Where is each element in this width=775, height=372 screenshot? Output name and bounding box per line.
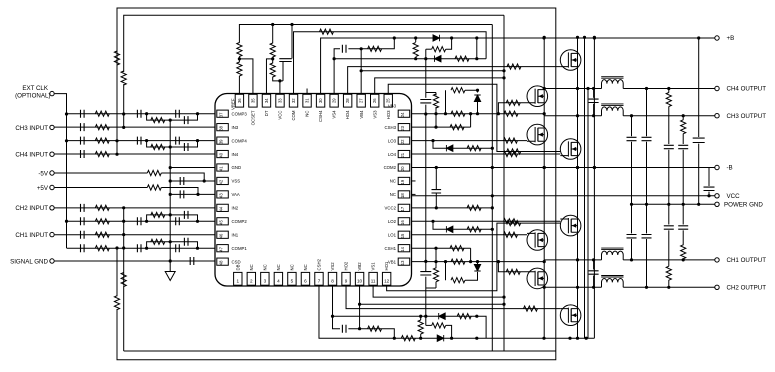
svg-text:CSD: CSD [232, 259, 241, 264]
resistor Q1 gate [507, 64, 521, 69]
U1 pin 26 box [371, 94, 379, 107]
capacitor COMP row 2 [176, 244, 180, 252]
wire resv436 top link [426, 92, 436, 94]
svg-text:CH4 INPUT: CH4 INPUT [15, 152, 48, 159]
junction outer loop COMP1 [115, 246, 118, 249]
svg-text:1: 1 [237, 279, 240, 284]
junction EXT CLK bus COMP4 [65, 139, 68, 142]
junction col668 ch2 [667, 286, 670, 289]
svg-text:19: 19 [400, 179, 405, 184]
wire y58.7 row [334, 58, 486, 60]
svg-text:45: 45 [219, 220, 224, 225]
svg-text:23: 23 [400, 125, 405, 130]
resistor R VREF lower [237, 62, 242, 76]
svg-text:34: 34 [264, 98, 269, 103]
capacitor filter CH3 [627, 137, 637, 140]
junction bus424 VB1 [424, 260, 427, 263]
wire col668 b [668, 150, 670, 205]
capacitor VCC [704, 187, 715, 190]
wire VCC rail [412, 195, 715, 197]
U1 pin 31 box [303, 94, 311, 107]
junction col683 ch1 [682, 258, 685, 261]
junction branch bus 226 [491, 228, 494, 231]
U1 pin 30 box [316, 94, 324, 107]
wire COMP T branch [147, 242, 198, 248]
resistor zobel CH3 [681, 120, 686, 134]
inductor L CH1 [602, 251, 624, 260]
wire x476 vertical [476, 38, 478, 59]
svg-text:33: 33 [277, 98, 282, 103]
wire outer loop upper [116, 45, 118, 52]
resistor FET4 gate [504, 151, 518, 156]
resistor COMP T branch [151, 212, 165, 217]
svg-text:40: 40 [219, 152, 224, 157]
U1 pin 13 box [398, 258, 410, 265]
U1 pin 27 box [357, 94, 365, 107]
diode y316 [439, 313, 446, 319]
junction pin8 y316 [331, 315, 334, 318]
svg-text:HO4: HO4 [345, 110, 350, 119]
wire bus424 lower [425, 277, 427, 326]
wire DT chain bottom [273, 77, 283, 81]
inductor L CH3 core [601, 104, 623, 106]
wire bus 588 [587, 89, 589, 339]
wire outer loop to IN4 [116, 141, 118, 154]
junction 577 -B [576, 166, 579, 169]
terminal CH2 OUTPUT [715, 285, 719, 289]
resistor COMP feedback [95, 246, 109, 251]
svg-text:EXT CLK: EXT CLK [22, 85, 49, 92]
svg-text:42: 42 [219, 179, 224, 184]
wire vcc cap upper [708, 168, 710, 187]
svg-text:NC: NC [249, 264, 254, 270]
U1 pin 18 box [398, 191, 410, 198]
terminal CH1 INPUT [50, 232, 54, 236]
wire pin19 stub [412, 180, 416, 182]
U1 pin 33 box [276, 94, 284, 107]
wire CH3 output line b [623, 115, 715, 117]
junction VB2 pin10 [358, 303, 361, 306]
svg-text:29: 29 [332, 98, 337, 103]
junction LO3 branch [431, 139, 434, 142]
svg-text:GND: GND [232, 165, 242, 170]
junction VB3 gate branch [497, 112, 500, 115]
wire CH3 output line a [544, 115, 601, 117]
U1 pin 15 box [398, 231, 410, 238]
wire diode to VB1 row [477, 262, 479, 265]
resistor VS2 [368, 326, 382, 331]
wire COMP T branch [147, 215, 198, 221]
capacitor COMP [81, 244, 85, 252]
junction y58.7 x476 [475, 57, 478, 60]
transistor Q8 [560, 305, 581, 326]
capacitor COMP row 2 [176, 137, 180, 145]
svg-text:31: 31 [304, 98, 309, 103]
svg-text:VREF: VREF [231, 98, 236, 110]
U1 pin 34 box [262, 94, 270, 107]
svg-text:IN4: IN4 [232, 152, 239, 157]
junction VB3 loop left [444, 112, 447, 115]
capacitor COMP [81, 110, 85, 118]
svg-text:13: 13 [400, 260, 405, 265]
capacitor VSS decoupling [180, 177, 184, 185]
U1 pin 35 box [249, 94, 257, 107]
op-amp U1 IRS2093M body [215, 94, 412, 287]
wire inner loop lower vertical [123, 208, 125, 285]
wire -5V to VSS [161, 173, 204, 181]
svg-text:HO3: HO3 [386, 110, 391, 119]
capacitor zobel CH2 [664, 226, 674, 229]
wire col668 bottom lead [668, 280, 670, 287]
svg-text:NC: NC [303, 264, 308, 270]
resistor R VREF upper [237, 43, 242, 57]
svg-text:HO2: HO2 [344, 261, 349, 270]
svg-text:10: 10 [357, 279, 363, 284]
junction VB1 loop left [444, 260, 447, 263]
wire pin31 stub [306, 89, 308, 94]
junction VCC bus492 [491, 194, 494, 197]
wire COMP T branch [147, 141, 198, 147]
resistor VB1 row [451, 259, 465, 264]
U1 pin 44 box [217, 204, 229, 211]
wire VS2 row [333, 286, 340, 329]
svg-text:15: 15 [400, 233, 405, 238]
svg-text:24: 24 [400, 112, 405, 117]
junction -B rail [576, 166, 579, 169]
junction y338 bus [542, 337, 545, 340]
svg-text:26: 26 [372, 98, 377, 103]
U1 pin 45 box [217, 218, 229, 225]
svg-text:POWER GND: POWER GND [724, 202, 763, 209]
junction inner loop COMP2 [122, 220, 125, 223]
resistor Q4 gate [507, 149, 521, 154]
svg-text:27: 27 [359, 98, 364, 103]
junction -B rail [491, 166, 494, 169]
svg-text:48: 48 [219, 260, 224, 265]
wire HO3 to Q4 gate [388, 84, 560, 151]
svg-text:NC: NC [290, 264, 295, 270]
capacitor COMP [81, 137, 85, 145]
svg-text:CH3 OUTPUT: CH3 OUTPUT [727, 113, 767, 120]
svg-text:COMP2: COMP2 [232, 219, 248, 224]
junction col683 ch3 [682, 114, 685, 117]
svg-text:CSH1: CSH1 [385, 246, 397, 251]
svg-text:CSH4: CSH4 [318, 110, 323, 122]
capacitor COMP T branch [184, 116, 188, 124]
svg-text:16: 16 [400, 220, 405, 225]
wire cap chain bottom [282, 62, 284, 81]
junction bus424 y316 [424, 315, 427, 318]
U1 pin 8 box [328, 272, 336, 285]
svg-text:LO2: LO2 [388, 219, 397, 224]
wire input row [55, 126, 215, 128]
resistor FET3 gate [504, 138, 518, 143]
transistor Q3 [527, 124, 548, 145]
capacitor zobel CH1 [678, 226, 688, 229]
wire col683 b [682, 150, 684, 205]
wire DT top [272, 25, 274, 44]
svg-text:46: 46 [219, 233, 224, 238]
capacitor CSD [190, 257, 194, 265]
U1 pin 37 box [217, 110, 229, 117]
svg-text:CH4 OUTPUT: CH4 OUTPUT [727, 86, 767, 93]
junction y338 bus [576, 337, 579, 340]
wire VCC cap chain top [291, 25, 293, 59]
resistor COMP feedback [95, 138, 109, 143]
svg-text:LO3: LO3 [388, 138, 397, 143]
wire col698 lower [698, 144, 700, 205]
junction COMP T [145, 139, 148, 142]
resistor input series [95, 125, 109, 130]
svg-text:LO4: LO4 [388, 152, 397, 157]
wire R2 right lead [446, 38, 452, 49]
junction VB1 column [543, 260, 546, 263]
resistor COMP T branch [151, 239, 165, 244]
wire resv436b bottom [435, 282, 437, 288]
junction VB4 pin27 [360, 69, 363, 72]
terminal CH4 OUTPUT [715, 86, 719, 90]
capacitor bulk +B [693, 138, 705, 142]
junction 588 ch4 [586, 87, 589, 90]
terminal POWER GND [715, 202, 719, 206]
svg-text:8: 8 [331, 279, 334, 284]
wire resv436b link [426, 287, 436, 289]
wire CSH3 row [412, 126, 471, 128]
svg-text:25: 25 [386, 98, 391, 103]
resistor +5V [147, 185, 161, 190]
diode D OCSET top [433, 35, 440, 41]
resistor y31.7 [320, 29, 334, 34]
svg-text:11: 11 [371, 279, 376, 284]
diode y58.7 [435, 56, 442, 62]
wire vref mid [238, 56, 240, 62]
svg-text:VS3: VS3 [372, 110, 377, 119]
svg-text:CSH3: CSH3 [385, 125, 397, 130]
wire VAA row [170, 193, 215, 195]
svg-text:IN3: IN3 [232, 125, 239, 130]
svg-text:CSH2: CSH2 [317, 258, 322, 270]
terminal CH2 INPUT [50, 206, 54, 210]
svg-text:5: 5 [291, 279, 294, 284]
wire col631 mid [631, 142, 633, 205]
wire LO2 gate row [412, 220, 561, 222]
junction VS1 504 [502, 296, 505, 299]
junction col668 ch4 [667, 87, 670, 90]
junction COMP T right [196, 139, 199, 142]
svg-text:9: 9 [345, 279, 348, 284]
wire HO4 gate row [348, 67, 561, 94]
junction pin29 y58.7 [333, 57, 336, 60]
wire col683 c [682, 204, 684, 224]
wire pin10 vertical [359, 286, 361, 329]
junction 594 -B [593, 166, 596, 169]
U1 pin 48 box [217, 258, 229, 265]
resistor COMP feedback [95, 111, 109, 116]
svg-text:35: 35 [250, 98, 255, 103]
junction y58.7 left [414, 57, 417, 60]
capacitor filter CH2 [642, 235, 652, 238]
resistor y58.7 [455, 56, 469, 61]
svg-text:32: 32 [291, 98, 296, 103]
svg-text:NC: NC [276, 264, 281, 270]
wire Rv bottom lead [415, 57, 417, 59]
wire COMP row [67, 247, 216, 249]
U1 pin 12 box [382, 272, 390, 285]
wire col683 bottom lead [682, 259, 684, 260]
U1 pin 11 box [369, 272, 377, 285]
junction cap ch12 top [592, 258, 595, 261]
junction resv436 CSH3 [434, 126, 437, 129]
junction col646 ch2 [645, 286, 648, 289]
U1 pin 6 box [301, 272, 309, 285]
junction VCC2 cap [435, 206, 438, 209]
junction rail VSS [169, 179, 172, 182]
wire cap438 lower [435, 193, 437, 208]
svg-text:7: 7 [318, 279, 321, 284]
wire LO3 gate row [412, 140, 528, 142]
inductor L CH4 [602, 80, 624, 89]
svg-text:3: 3 [264, 279, 267, 284]
svg-text:(OPTIONAL): (OPTIONAL) [15, 92, 50, 99]
capacitor COMP row 2 [176, 110, 180, 118]
resistor x436 [433, 94, 438, 108]
wire resv436 top [435, 93, 437, 96]
wire VB3 row [412, 113, 545, 115]
svg-text:VB2: VB2 [357, 262, 362, 271]
resistor outer loop top [114, 51, 119, 65]
resistor zobel CH4 [666, 93, 671, 107]
terminal CH3 INPUT [50, 125, 54, 129]
wire outer loop bottom stub [116, 309, 118, 360]
svg-text:NC: NC [390, 179, 396, 184]
wire +5V row [55, 187, 148, 189]
wire input row [55, 153, 215, 155]
wire CH4 output line a [544, 88, 601, 90]
junction DT y24.5 [271, 23, 274, 26]
wire cap ch43 upper [593, 89, 595, 98]
svg-text:COM2: COM2 [384, 165, 397, 170]
junction +B rail [697, 36, 700, 39]
junction 544 +B [543, 36, 546, 39]
U1 pin 25 box [384, 94, 392, 107]
wire COM row y31.7 [294, 32, 487, 94]
svg-text:CH3 INPUT: CH3 INPUT [15, 125, 48, 132]
capacitor COMP T 1 [137, 110, 141, 118]
wire COMP row [67, 140, 216, 142]
wire y24.5 rail [239, 25, 492, 43]
resistor CSH3 [450, 125, 464, 130]
svg-text:+B: +B [727, 35, 735, 42]
resistor input series [95, 232, 109, 237]
resistor bottom divider [418, 320, 423, 334]
capacitor input coupling [81, 123, 85, 131]
wire ground stub [169, 261, 171, 272]
transistor Q2 [527, 86, 548, 107]
junction y338 bus [585, 337, 588, 340]
wire -5V row [55, 172, 148, 174]
junction bus424 y58.7 [424, 57, 427, 60]
junction y316 x476 [475, 315, 478, 318]
wire CH4 output line b [623, 88, 715, 90]
junction +B rail [414, 36, 417, 39]
wire Rv bottom lead2 [420, 334, 422, 338]
wire HO1 to Q5 gate [387, 223, 561, 291]
svg-text:2: 2 [250, 279, 253, 284]
wire VS2 riser [348, 329, 394, 339]
wire FET column 577 [577, 37, 579, 338]
U1 pin 3 box [261, 272, 269, 285]
wire bottom bus y338 [319, 286, 594, 338]
junction COMP T [145, 112, 148, 115]
wire cap438 upper [435, 168, 437, 190]
capacitor COMP T branch [184, 143, 188, 151]
U1 pin 21 box [398, 150, 410, 157]
wire col668 a [668, 106, 670, 144]
wire COMP T branch [147, 114, 198, 120]
svg-text:VS4: VS4 [332, 110, 337, 119]
capacitor bus424 bottom [420, 272, 431, 275]
junction -B rail [593, 166, 596, 169]
junction 584 +B [583, 36, 586, 39]
junction pwr gnd rail [645, 203, 648, 206]
wire CH2 output line a [544, 286, 601, 288]
resistor VB3 loop top [451, 88, 465, 93]
junction 544 ch2 [543, 286, 546, 289]
junction inner loop IN3 [122, 126, 125, 129]
wire VB1 loop left vert [445, 262, 447, 281]
svg-text:COMP3: COMP3 [232, 111, 248, 116]
junction VB3 resv [434, 112, 437, 115]
capacitor x438 [432, 190, 442, 193]
U1 pin 4 box [274, 272, 282, 285]
wire col698 upper [698, 38, 700, 137]
resistor Q8 gate [524, 306, 538, 311]
junction COMP T branch gnd rail [169, 213, 172, 216]
junction inner loop IN1 [122, 233, 125, 236]
wire Rv top lead [415, 38, 417, 42]
junction y338 bus [568, 337, 571, 340]
junction pwr gnd rail [697, 203, 700, 206]
resistor LO3 branch [467, 146, 481, 151]
U1 pin 10 box [355, 272, 363, 285]
junction rail VAA [169, 193, 172, 196]
svg-text:CH2 INPUT: CH2 INPUT [15, 205, 48, 212]
junction col631 ch1 [630, 258, 633, 261]
wire VB1 row [412, 261, 545, 263]
junction cap ch12 bottom [592, 286, 595, 289]
wire VS4 to +B [348, 38, 394, 49]
junction 577 ch2 [576, 286, 579, 289]
junction pwr gnd rail [667, 203, 670, 206]
svg-text:COM: COM [291, 110, 296, 120]
wire diode to VB3 row [477, 102, 479, 114]
resistor zobel CH2 [666, 266, 671, 280]
junction 577 ch4 [576, 87, 579, 90]
svg-text:6: 6 [304, 279, 307, 284]
wire Q2 gate row [498, 103, 527, 114]
junction DT divider [271, 57, 274, 60]
svg-text:44: 44 [219, 206, 224, 211]
wire col668 c [668, 204, 670, 224]
junction COMP T branch gnd rail [169, 240, 172, 243]
wire VS3 row [375, 78, 504, 94]
U1 pin 40 box [217, 150, 229, 157]
junction COMP T branch gnd rail [169, 145, 172, 148]
svg-text:CH2 OUTPUT: CH2 OUTPUT [727, 285, 767, 292]
wire LO1 gate row [412, 234, 528, 236]
wire analog ground rail [169, 120, 171, 261]
wire +B rail [321, 38, 715, 94]
